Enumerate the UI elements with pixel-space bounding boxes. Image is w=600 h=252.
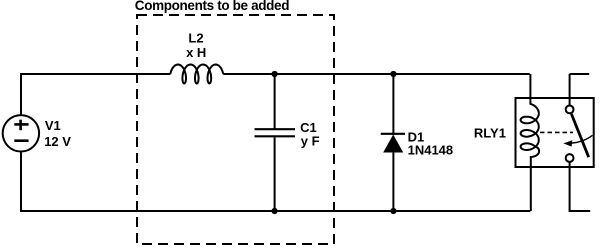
- svg-text:V1: V1: [45, 118, 61, 133]
- svg-text:x H: x H: [186, 45, 206, 60]
- svg-text:Components to be added: Components to be added: [135, 0, 289, 13]
- svg-text:1N4148: 1N4148: [408, 143, 454, 158]
- svg-text:L2: L2: [188, 30, 203, 45]
- svg-text:RLY1: RLY1: [474, 126, 506, 141]
- svg-text:y F: y F: [301, 133, 320, 148]
- svg-text:12 V: 12 V: [44, 134, 71, 149]
